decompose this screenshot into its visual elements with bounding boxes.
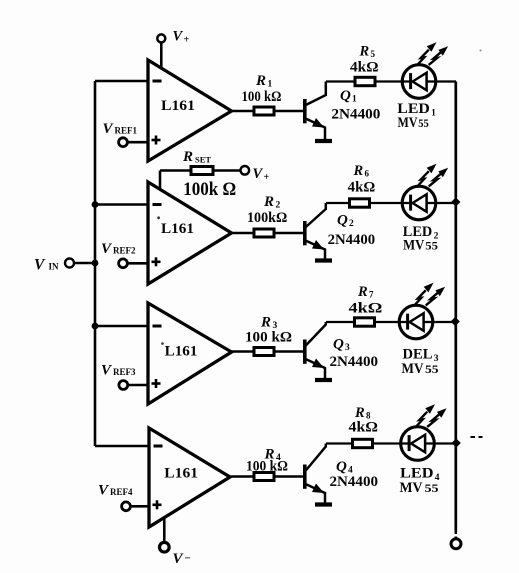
label LED4 type MV55 <box>400 480 439 496</box>
label Q4 type 2N4400 <box>330 474 379 490</box>
label R3 designator <box>260 315 278 332</box>
label V+ (R_SET) <box>253 166 270 183</box>
wire R6 to LED2 <box>370 202 411 204</box>
label R2 designator <box>263 194 281 211</box>
label R5 designator <box>359 44 376 60</box>
label Q1 type 2N4400 <box>331 107 380 123</box>
op-amp U1 non-inverting pin mark <box>152 136 161 145</box>
label LED2 type MV55 <box>403 238 438 254</box>
label V_REF2 <box>101 241 136 257</box>
label LED3 designator <box>403 347 439 365</box>
wire LED1 to output bus <box>436 80 456 82</box>
label R8 designator <box>354 405 371 421</box>
LED2 emission arrow b <box>429 168 448 187</box>
label R7 value 4kΩ <box>349 301 383 317</box>
resistor R8 <box>353 439 373 447</box>
wire input bus vertical <box>94 81 97 446</box>
svg-text:2N4400: 2N4400 <box>331 107 380 123</box>
wire LED2 to output bus <box>436 202 456 204</box>
op-amp U3 non-inverting pin mark <box>152 379 161 388</box>
label V_REF1 <box>103 121 138 137</box>
label R4 value 100kΩ <box>246 459 288 475</box>
op-amp U3 <box>148 303 232 404</box>
op-amp U3 inverting pin mark <box>153 325 162 328</box>
svg-text:V: V <box>173 551 185 567</box>
op-amp U4 label L161 <box>164 466 198 482</box>
svg-text:V: V <box>173 29 184 45</box>
svg-text:MV: MV <box>402 361 424 377</box>
wire op2 output to R2 <box>231 232 255 235</box>
svg-text:4kΩ: 4kΩ <box>349 301 383 317</box>
wire op4 V- stub <box>163 517 166 543</box>
wire V_REF2 to op-amp <box>127 262 148 265</box>
svg-text:IN: IN <box>49 262 60 272</box>
svg-text:L161: L161 <box>161 221 194 237</box>
label R2 value 100kΩ <box>247 210 287 226</box>
svg-text:100kΩ: 100kΩ <box>247 210 287 226</box>
LED3 emission arrow b <box>426 287 445 306</box>
wire V_REF4 to op-amp <box>130 505 149 508</box>
op-amp U1 <box>148 60 232 161</box>
svg-text:Q: Q <box>336 459 347 475</box>
label V- (bottom) <box>173 551 191 567</box>
op-amp U4 inverting pin mark <box>154 445 163 448</box>
svg-text:7: 7 <box>369 290 374 300</box>
svg-text:V: V <box>103 121 115 137</box>
terminal V_REF3 <box>119 381 128 390</box>
node speck (scan artifact) 3 <box>161 342 164 345</box>
label LED2 designator <box>403 224 439 242</box>
wire op2 inverting input <box>95 203 148 206</box>
resistor R5 <box>355 77 375 85</box>
node junction bus/LED3 <box>451 317 460 326</box>
svg-text:1: 1 <box>431 109 436 119</box>
svg-text:55: 55 <box>425 239 438 253</box>
transistor Q4 <box>305 444 326 504</box>
terminal V- (bottom) <box>160 542 170 552</box>
svg-text:2N4400: 2N4400 <box>330 474 379 490</box>
svg-text:4kΩ: 4kΩ <box>350 60 379 76</box>
ground <box>315 378 332 382</box>
label Q3 designator <box>333 337 350 354</box>
LED3 emission arrow a <box>414 283 434 306</box>
svg-text:55: 55 <box>418 116 429 130</box>
op-amp U1 label L161 <box>161 98 195 114</box>
resistor R1 <box>254 107 305 115</box>
svg-text:55: 55 <box>425 481 439 495</box>
wire output bus vertical <box>454 82 457 532</box>
LED1 emission arrow a <box>417 42 437 65</box>
ground <box>315 502 332 506</box>
wire V_IN to bus <box>74 262 95 265</box>
svg-text:6: 6 <box>365 169 370 179</box>
node junction bus/op2 <box>92 201 99 208</box>
svg-text:REF1: REF1 <box>115 126 138 136</box>
svg-text:MV: MV <box>403 238 425 254</box>
terminal V_REF2 <box>119 259 128 268</box>
svg-text:5: 5 <box>371 49 376 59</box>
svg-text:REF4: REF4 <box>110 487 133 497</box>
svg-text:100 kΩ: 100 kΩ <box>245 330 292 346</box>
wire bus dotted end <box>455 532 458 539</box>
label V_REF4 <box>98 483 133 499</box>
svg-text:L161: L161 <box>164 466 198 482</box>
resistor R3 <box>254 348 305 356</box>
terminal V_REF4 <box>122 502 131 511</box>
wire R7 to LED3 <box>375 321 408 323</box>
label Q1 designator <box>340 88 357 105</box>
svg-text:2N4400: 2N4400 <box>330 354 379 370</box>
label R_SET value 100kΩ <box>183 179 236 200</box>
transistor Q2 <box>305 203 326 259</box>
wire Q2 collector to R6 <box>326 202 350 204</box>
label R3 value 100kΩ <box>245 330 292 346</box>
svg-text:R: R <box>359 44 370 60</box>
svg-text:SET: SET <box>195 155 211 165</box>
resistor R6 <box>350 199 370 207</box>
terminal V+ (R_SET) <box>241 166 250 175</box>
op-amp U4 non-inverting pin mark <box>153 500 162 509</box>
svg-text:Q: Q <box>337 213 348 229</box>
svg-text:Q: Q <box>340 88 351 104</box>
svg-text:−: − <box>185 553 191 565</box>
wire V_REF3 to op-amp <box>128 384 148 387</box>
label R6 value 4kΩ <box>348 180 376 196</box>
LED LED2 <box>402 186 436 220</box>
terminal V+ (top) <box>157 34 165 42</box>
svg-text:1: 1 <box>268 80 273 90</box>
op-amp U3 label L161 <box>165 344 198 360</box>
wire V_REF1 to op-amp <box>127 141 148 144</box>
node speck (scan artifact) <box>479 49 481 51</box>
label LED1 type MV55 <box>398 115 429 131</box>
wire op3 inverting input <box>95 325 148 328</box>
LED LED1 <box>402 65 436 99</box>
op-amp U2 non-inverting pin mark <box>152 257 161 266</box>
svg-text:V: V <box>34 257 46 274</box>
LED LED3 <box>399 305 436 339</box>
svg-text:V: V <box>101 363 113 379</box>
node junction bus/LED2 <box>451 197 460 206</box>
op-amp U2 label L161 <box>161 221 194 237</box>
svg-text:4kΩ: 4kΩ <box>348 180 376 196</box>
svg-text:Q: Q <box>333 337 344 353</box>
label LED3 type MV55 <box>402 361 439 377</box>
resistor R4 <box>254 473 305 481</box>
svg-text:+: + <box>184 35 190 46</box>
wire R8 to LED4 <box>373 442 410 444</box>
wire op3 output to R3 <box>231 350 255 353</box>
wire op4 inverting input <box>95 445 149 448</box>
wire Q4 collector to R8 <box>326 442 353 444</box>
svg-text:R: R <box>353 163 364 179</box>
wire op4 output to R4 <box>231 475 255 478</box>
terminal output (bottom right) <box>451 539 461 549</box>
terminal V_IN <box>34 257 74 274</box>
LED4 emission arrow b <box>427 408 446 427</box>
node junction bus/LED4 <box>452 438 461 447</box>
label R1 designator <box>255 73 273 90</box>
LED LED4 <box>401 427 436 461</box>
svg-text:100k Ω: 100k Ω <box>183 179 236 200</box>
svg-text:L161: L161 <box>165 344 198 360</box>
op-amp U2 <box>148 182 232 284</box>
svg-text:2: 2 <box>276 201 281 211</box>
transistor Q3 <box>305 322 326 379</box>
label R1 value 100kΩ <box>242 89 282 105</box>
node junction bus/op3 <box>92 323 99 330</box>
label Q2 designator <box>337 213 354 230</box>
svg-text:V: V <box>253 166 264 182</box>
wire op1 V+ stub <box>160 43 163 70</box>
terminal V_REF1 <box>119 138 128 147</box>
LED2 emission arrow a <box>417 164 437 187</box>
svg-text:REF3: REF3 <box>113 367 136 377</box>
transistor Q1 <box>305 82 326 140</box>
label R_SET designator <box>182 149 211 165</box>
wire dotted continuation <box>471 436 483 438</box>
wire R5 to LED1 <box>375 80 411 82</box>
resistor R2 <box>254 229 305 237</box>
label R4 designator <box>264 447 282 464</box>
svg-text:V: V <box>98 483 110 499</box>
svg-text:3: 3 <box>345 343 350 353</box>
resistor R_SET <box>191 167 213 175</box>
svg-text:V: V <box>101 241 113 257</box>
label Q3 type 2N4400 <box>330 354 379 370</box>
label R8 value 4kΩ <box>349 420 379 436</box>
op-amp U2 inverting pin mark <box>153 203 162 206</box>
svg-text:MV: MV <box>398 115 418 131</box>
wire R_SET stub from op2 <box>160 171 191 191</box>
op-amp U4 <box>149 428 230 527</box>
ground <box>315 139 332 143</box>
svg-text:+: + <box>264 172 270 183</box>
wire R_SET to V+ <box>213 169 241 172</box>
svg-text:R: R <box>357 284 368 300</box>
label R6 designator <box>353 163 370 179</box>
wire LED3 to output bus <box>436 321 456 323</box>
wire Q1 collector to R5 <box>326 80 355 82</box>
svg-text:55: 55 <box>425 362 439 376</box>
resistor R7 <box>355 318 375 326</box>
wire LED4 to output bus <box>436 442 456 444</box>
svg-text:100 kΩ: 100 kΩ <box>242 89 282 105</box>
wire op1 inverting input <box>95 80 148 83</box>
label Q4 designator <box>336 459 353 476</box>
svg-text:2N4400: 2N4400 <box>328 232 376 248</box>
LED4 emission arrow a <box>415 404 435 427</box>
label Q2 type 2N4400 <box>328 232 376 248</box>
wire op1 output to R1 <box>231 110 255 113</box>
op-amp U1 inverting pin mark <box>153 80 162 83</box>
svg-text:MV: MV <box>400 480 423 496</box>
svg-text:R: R <box>255 73 267 89</box>
wire Q3 collector to R7 <box>326 321 355 323</box>
svg-text:R: R <box>263 194 275 210</box>
label V+ (top) <box>173 29 190 46</box>
svg-text:2: 2 <box>349 219 354 229</box>
LED1 emission arrow b <box>429 46 448 65</box>
svg-text:4kΩ: 4kΩ <box>349 420 379 436</box>
svg-text:L161: L161 <box>161 98 195 114</box>
label R7 designator <box>357 284 374 300</box>
svg-text:100 kΩ: 100 kΩ <box>246 459 288 475</box>
svg-text:1: 1 <box>352 95 357 105</box>
svg-text:REF2: REF2 <box>113 246 136 256</box>
node speck (scan artifact) 2 <box>157 216 160 219</box>
ground <box>315 258 332 262</box>
label LED4 designator <box>400 466 440 484</box>
svg-text:R: R <box>260 315 272 331</box>
svg-text:R: R <box>182 149 194 165</box>
label R5 value 4kΩ <box>350 60 379 76</box>
label V_REF3 <box>101 363 136 379</box>
node junction bus/V_IN <box>92 260 99 267</box>
label LED1 designator <box>397 101 436 119</box>
